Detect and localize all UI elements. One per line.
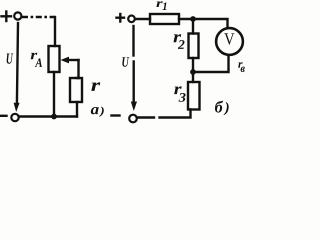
resistor r1 body [150, 14, 179, 24]
wire: + terminal to resistor r1 [136, 18, 151, 20]
wire: bottom wire from − terminal to resistor r branch [19, 115, 77, 117]
terminal + (left circuit) [14, 12, 21, 19]
label r2 [174, 34, 185, 49]
label rA [31, 53, 42, 67]
voltage arrow U (right circuit) [131, 26, 137, 111]
junction A (r1 / r2 / voltmeter branch) [190, 16, 196, 22]
wire: bottom wire from − terminal to r3 bottom [137, 116, 154, 118]
wire: top corner down to potentiometer rA [54, 17, 56, 46]
voltage arrow U (left circuit) [14, 23, 20, 112]
label V (voltmeter face) [224, 33, 234, 44]
wire: r2 bottom to junction B [192, 58, 194, 72]
wiper arrow of rA [61, 57, 79, 64]
minus polarity mark (left circuit) [1, 115, 7, 117]
label r (load resistor) [91, 82, 100, 90]
label rв (voltmeter internal resistance) [238, 62, 245, 72]
terminal − (left circuit) [11, 114, 18, 121]
wire: potentiometer rA bottom down to bottom wire [53, 72, 55, 117]
wire: resistor r bottom to bottom wire corner [76, 102, 78, 117]
resistor r3 body [188, 82, 200, 110]
label б) sub-figure [215, 101, 229, 116]
potentiometer rA body [49, 46, 60, 72]
junction: rA bottom / bottom wire [51, 114, 57, 120]
voltmeter V body [216, 28, 243, 55]
wire: junction A down to r2 [192, 19, 194, 34]
label U (left circuit) [7, 53, 14, 63]
label а) sub-figure [91, 106, 104, 116]
wire: junction A to voltmeter top [193, 19, 228, 28]
minus polarity mark (right circuit) [112, 114, 120, 116]
resistor r2 body [189, 34, 199, 59]
label r3 [174, 86, 185, 101]
label U (right circuit) [122, 57, 129, 66]
wire: + terminal to top-right corner (left circuit) [22, 16, 55, 18]
wire: wiper corner down to resistor r [77, 60, 79, 78]
terminal + (right circuit) [128, 15, 135, 22]
wire: r1 to junction A [179, 18, 193, 20]
junction B (r2 / r3 / voltmeter branch) [190, 69, 196, 75]
label r1 [156, 1, 166, 10]
wire: junction B to r3 top [192, 72, 194, 82]
resistor r body [70, 78, 82, 102]
terminal − (right circuit) [129, 115, 137, 123]
plus polarity mark (left circuit) [2, 12, 12, 22]
plus polarity mark (right circuit) [117, 14, 125, 22]
wire: voltmeter bottom to junction B [193, 56, 229, 73]
